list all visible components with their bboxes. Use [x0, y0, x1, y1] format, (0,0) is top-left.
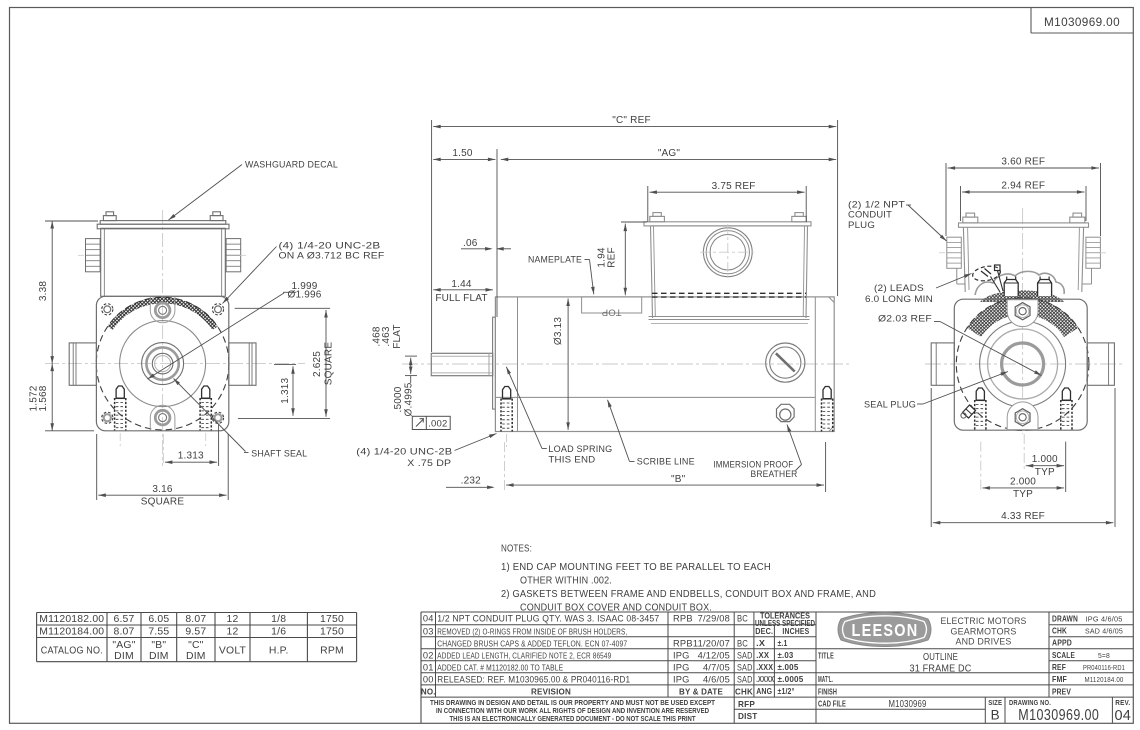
svg-text:DIM: DIM: [186, 651, 206, 662]
svg-text:CHK: CHK: [1052, 627, 1067, 636]
svg-text:SAD: SAD: [737, 674, 753, 684]
svg-text:7.55: 7.55: [148, 626, 169, 637]
svg-text:"C" REF: "C" REF: [612, 115, 651, 126]
svg-text:.463: .463: [381, 326, 392, 347]
svg-text:04: 04: [423, 614, 434, 624]
svg-text:(2) LEADS: (2) LEADS: [874, 283, 924, 294]
svg-text:DIST: DIST: [738, 712, 757, 721]
svg-text:.5000: .5000: [393, 386, 404, 412]
svg-text:"AG": "AG": [658, 148, 681, 159]
svg-text:CHK: CHK: [735, 687, 753, 696]
svg-text:M1120184.00: M1120184.00: [1085, 675, 1124, 684]
svg-text:BC: BC: [737, 638, 748, 648]
svg-text:(4) 1/4-20 UNC-2B: (4) 1/4-20 UNC-2B: [356, 446, 452, 457]
svg-text:CAD FILE: CAD FILE: [818, 700, 846, 709]
svg-text:03: 03: [423, 626, 434, 636]
svg-text:M1030969.00: M1030969.00: [1044, 15, 1120, 29]
svg-text:DEC.: DEC.: [755, 627, 773, 636]
svg-text:12: 12: [227, 614, 239, 625]
svg-text:3.38: 3.38: [38, 281, 49, 302]
svg-text:CHANGED BRUSH CAPS & ADDED TEF: CHANGED BRUSH CAPS & ADDED TEFLON. ECN 0…: [437, 638, 627, 648]
svg-text:PLUG: PLUG: [848, 220, 875, 231]
svg-text:BC: BC: [737, 614, 748, 624]
svg-text:SQUARE: SQUARE: [324, 342, 335, 386]
svg-text:SAD: SAD: [737, 662, 753, 672]
svg-text:4.33 REF: 4.33 REF: [1001, 511, 1045, 522]
svg-text:SQUARE: SQUARE: [141, 497, 185, 508]
svg-text:1/2 NPT CONDUIT PLUG QTY. WAS: 1/2 NPT CONDUIT PLUG QTY. WAS 3. ISAAC 0…: [437, 614, 659, 625]
svg-text:"C": "C": [188, 640, 204, 651]
svg-text:1.44: 1.44: [451, 279, 472, 290]
svg-text:8.07: 8.07: [113, 626, 134, 637]
svg-text:6.05: 6.05: [148, 614, 169, 625]
svg-text:GEARMOTORS: GEARMOTORS: [951, 626, 1017, 636]
svg-text:3.16: 3.16: [152, 484, 173, 495]
svg-text:ADDED CAT. # M1120182.00 TO TA: ADDED CAT. # M1120182.00 TO TABLE: [437, 662, 563, 672]
svg-text:1.000: 1.000: [1032, 454, 1058, 465]
svg-text:DRAWN: DRAWN: [1052, 614, 1078, 623]
svg-text:NO.: NO.: [421, 688, 436, 697]
svg-text:11/20/07: 11/20/07: [693, 638, 730, 648]
svg-text:±1/2°: ±1/2°: [778, 686, 795, 696]
svg-text:"AG": "AG": [112, 640, 135, 651]
svg-text:APPD: APPD: [1052, 639, 1072, 648]
svg-text:1.313: 1.313: [280, 377, 291, 403]
svg-text:9.57: 9.57: [185, 626, 206, 637]
svg-text:DRAWING NO.: DRAWING NO.: [1009, 698, 1051, 707]
svg-text:02: 02: [423, 650, 434, 660]
svg-text:±.1: ±.1: [778, 638, 788, 648]
svg-text:2.94 REF: 2.94 REF: [1001, 181, 1045, 192]
svg-text:ON A Ø3.712 BC REF: ON A Ø3.712 BC REF: [279, 251, 385, 262]
svg-text:OTHER WITHIN .002.: OTHER WITHIN .002.: [520, 575, 612, 586]
svg-text:1750: 1750: [320, 626, 344, 637]
svg-text:4/7/05: 4/7/05: [703, 662, 730, 672]
svg-text:B: B: [991, 708, 1000, 723]
svg-text:.06: .06: [463, 238, 478, 249]
svg-text:SEAL PLUG: SEAL PLUG: [864, 400, 916, 411]
svg-text:X .75 DP: X .75 DP: [407, 458, 451, 469]
svg-text:±.03: ±.03: [778, 650, 794, 660]
svg-text:NAMEPLATE: NAMEPLATE: [528, 255, 582, 266]
svg-text:CATALOG NO.: CATALOG NO.: [41, 645, 103, 656]
svg-text:5=8: 5=8: [1098, 651, 1110, 660]
svg-text:1.313: 1.313: [178, 451, 204, 462]
svg-text:SCRIBE LINE: SCRIBE LINE: [637, 457, 695, 468]
svg-text:REV.: REV.: [1115, 698, 1130, 707]
svg-text:TITLE: TITLE: [818, 651, 834, 660]
svg-text:Ø.4995: Ø.4995: [404, 382, 415, 416]
svg-text:REF: REF: [1052, 663, 1066, 672]
svg-text:FMF: FMF: [1052, 675, 1067, 684]
svg-text:FULL FLAT: FULL FLAT: [435, 293, 487, 304]
svg-text:1/6: 1/6: [271, 626, 286, 637]
svg-text:PREV: PREV: [1052, 687, 1071, 696]
svg-text:04: 04: [1115, 708, 1132, 724]
svg-text:IPG: IPG: [673, 650, 690, 660]
svg-text:ADDED LEAD LENGTH, CLARIFIED N: ADDED LEAD LENGTH, CLARIFIED NOTE 2, ECR…: [437, 650, 611, 660]
svg-text:1750: 1750: [320, 614, 344, 625]
svg-text:M1030969.00: M1030969.00: [1018, 707, 1099, 724]
svg-text:8.07: 8.07: [185, 614, 206, 625]
svg-text:RPB: RPB: [673, 614, 693, 624]
svg-text:TYP: TYP: [1035, 467, 1055, 478]
svg-text:.002: .002: [428, 419, 447, 430]
svg-text:IPG: IPG: [673, 662, 690, 672]
svg-text:BY & DATE: BY & DATE: [679, 686, 723, 696]
svg-text:6.0 LONG MIN: 6.0 LONG MIN: [865, 294, 933, 305]
svg-text:7/29/08: 7/29/08: [698, 614, 730, 624]
svg-text:MAT'L.: MAT'L.: [818, 675, 833, 684]
svg-text:"B": "B": [671, 474, 686, 485]
svg-text:DIM: DIM: [114, 651, 134, 662]
svg-text:SAD: SAD: [737, 650, 753, 660]
svg-text:LEESON: LEESON: [852, 620, 919, 640]
svg-text:M1120182.00: M1120182.00: [39, 614, 104, 625]
svg-text:.XXXX: .XXXX: [756, 674, 774, 684]
svg-text:00: 00: [423, 674, 434, 684]
svg-text:Ø1.996: Ø1.996: [287, 290, 321, 301]
svg-text:12: 12: [227, 626, 239, 637]
svg-text:.XX: .XX: [756, 650, 769, 660]
svg-text:DIM: DIM: [149, 651, 169, 662]
svg-text:BREATHER: BREATHER: [751, 469, 798, 480]
svg-text:REVISION: REVISION: [531, 686, 571, 696]
svg-text:±.0005: ±.0005: [778, 674, 804, 684]
svg-text:VOLT: VOLT: [219, 645, 247, 656]
svg-text:RFP: RFP: [738, 700, 755, 709]
svg-text:Ø3.13: Ø3.13: [553, 317, 564, 345]
svg-text:RPM: RPM: [320, 645, 344, 656]
svg-text:THIS IS AN ELECTRONICALLY GENE: THIS IS AN ELECTRONICALLY GENERATED DOCU…: [450, 716, 697, 723]
svg-text:±.005: ±.005: [778, 662, 799, 672]
svg-text:SIZE: SIZE: [988, 698, 1002, 707]
svg-text:1.50: 1.50: [452, 148, 473, 159]
svg-text:THIS DRAWING IN DESIGN AND DET: THIS DRAWING IN DESIGN AND DETAIL IS OUR…: [430, 700, 716, 707]
svg-text:NOTES:: NOTES:: [501, 544, 532, 555]
svg-text:1) END CAP MOUNTING FEET TO BE: 1) END CAP MOUNTING FEET TO BE PARALLEL …: [501, 562, 771, 573]
svg-text:TYP: TYP: [1013, 489, 1033, 500]
svg-text:M1120184.00: M1120184.00: [39, 626, 104, 637]
svg-text:4/6/05: 4/6/05: [703, 674, 730, 684]
svg-text:IPG: IPG: [673, 674, 690, 684]
svg-text:THIS END: THIS END: [548, 455, 595, 466]
svg-text:OUTLINE: OUTLINE: [923, 652, 958, 663]
svg-text:31 FRAME DC: 31 FRAME DC: [910, 663, 972, 674]
svg-text:FLAT: FLAT: [392, 324, 403, 349]
svg-text:.XXX: .XXX: [756, 662, 773, 672]
svg-text:ELECTRIC MOTORS: ELECTRIC MOTORS: [941, 616, 1027, 626]
svg-text:WASHGUARD DECAL: WASHGUARD DECAL: [245, 160, 338, 171]
svg-text:1.568: 1.568: [38, 385, 49, 411]
svg-text:FINISH: FINISH: [818, 687, 837, 696]
svg-text:REMOVED (2) O-RINGS FROM INSID: REMOVED (2) O-RINGS FROM INSIDE OF BRUSH…: [437, 626, 627, 636]
svg-text:SAD 4/6/05: SAD 4/6/05: [1085, 627, 1123, 636]
svg-text:2) GASKETS BETWEEN FRAME AND E: 2) GASKETS BETWEEN FRAME AND ENDBELLS, C…: [501, 589, 876, 600]
svg-text:4/12/05: 4/12/05: [698, 650, 730, 660]
svg-text:01: 01: [423, 662, 434, 672]
svg-text:INCHES: INCHES: [782, 627, 809, 636]
svg-text:TOP: TOP: [602, 307, 622, 318]
svg-text:RPB: RPB: [673, 638, 693, 648]
svg-text:H.P.: H.P.: [269, 645, 289, 656]
svg-text:RELEASED: REF. M1030965.00 & P: RELEASED: REF. M1030965.00 & PR040116-RD…: [437, 674, 630, 685]
svg-text:SHAFT SEAL: SHAFT SEAL: [251, 448, 307, 459]
svg-text:"B": "B": [151, 640, 166, 651]
svg-text:Ø2.03 REF: Ø2.03 REF: [878, 314, 932, 325]
svg-text:.232: .232: [461, 476, 482, 487]
svg-text:IN CONNECTION WITH OUR WORK AL: IN CONNECTION WITH OUR WORK ALL RIGHTS O…: [436, 708, 709, 715]
svg-text:2.625: 2.625: [312, 351, 323, 377]
svg-text:REF: REF: [607, 247, 618, 268]
svg-text:1/8: 1/8: [271, 614, 286, 625]
svg-text:LOAD SPRING: LOAD SPRING: [548, 444, 612, 455]
svg-text:2.000: 2.000: [1010, 476, 1036, 487]
svg-text:3.60 REF: 3.60 REF: [1001, 157, 1045, 168]
svg-text:.X: .X: [756, 638, 765, 648]
svg-text:IPG 4/6/05: IPG 4/6/05: [1086, 614, 1123, 623]
svg-text:3.75 REF: 3.75 REF: [712, 181, 756, 192]
svg-text:ANG: ANG: [756, 686, 772, 696]
svg-text:SCALE: SCALE: [1052, 651, 1075, 660]
svg-text:M1030969: M1030969: [889, 699, 927, 710]
svg-text:6.57: 6.57: [113, 614, 134, 625]
svg-text:PR040116-RD1: PR040116-RD1: [1083, 663, 1125, 672]
svg-text:AND DRIVES: AND DRIVES: [956, 637, 1012, 647]
